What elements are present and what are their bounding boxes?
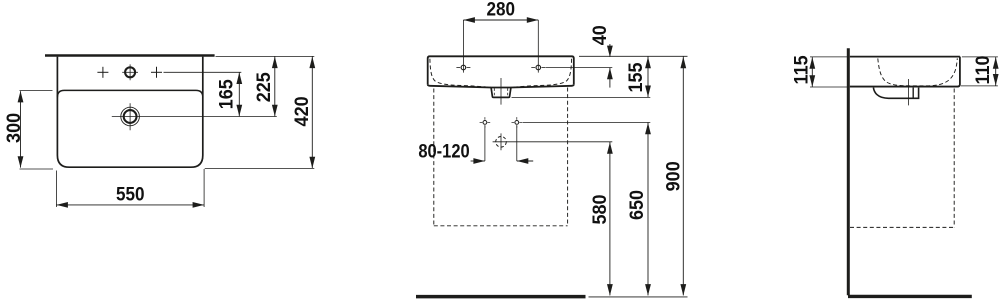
dim 300 extension top [20, 90, 53, 92]
extension fixing holes to 650 dim [523, 121, 651, 123]
dim 300 line [20, 91, 22, 167]
dim 165 arrow down [236, 105, 242, 117]
washbasin top view: outer outline [57, 57, 202, 168]
dim 550 line [56, 204, 204, 206]
front view: bottom edge [428, 84, 574, 87]
front view: furniture hidden dashed right [567, 88, 569, 226]
dim 280 arrow left [463, 17, 475, 23]
front view: drain trap outline [491, 88, 511, 98]
svg-text:420: 420 [290, 96, 312, 126]
dim 40 line lower + arrow up [609, 68, 611, 88]
dim 280 line [463, 19, 538, 21]
front view: trap centreline [500, 78, 502, 105]
top view: centre tap hole centrelines [122, 71, 138, 73]
front view: left tap hole symbol [461, 65, 466, 70]
top view: drain vertical centreline [129, 103, 131, 130]
svg-text:115: 115 [790, 55, 812, 84]
dim 115 extension top [810, 56, 847, 58]
dim 225 arrow up [272, 57, 278, 69]
dim 110 extension top [962, 56, 998, 58]
extension line front edge to 420 dim [205, 167, 315, 169]
dim 280 extension/centreline right [537, 20, 539, 73]
svg-text:300: 300 [3, 113, 25, 143]
front view: drain wall cross circle [496, 137, 507, 148]
side view: basin bottom edge [850, 86, 959, 88]
dim 115 extension bottom [810, 86, 847, 88]
side view: drain hidden dashed vertical [953, 89, 955, 228]
dim 80-120 drop line left [484, 126, 486, 161]
dim 110 arrow down [993, 74, 999, 86]
svg-text:225: 225 [253, 72, 275, 102]
dim 900 arrow up [680, 57, 686, 68]
dim 80-120 arrow right-pointing [473, 158, 485, 164]
side view: floor thick line [848, 295, 972, 298]
dim 165 line [238, 72, 240, 116]
side view: basin top edge [850, 56, 960, 58]
extension line tap row to 165 dim [164, 71, 242, 73]
front view: drain wall cross + extension to 580 dim [493, 141, 613, 143]
extension trap bottom to 155 dim [512, 96, 651, 98]
dim 80-120 arrow left-pointing [517, 158, 529, 164]
dim 580 line [609, 142, 611, 295]
dim 110 extension bottom [961, 85, 998, 87]
dim 155 arrow down [645, 86, 651, 98]
floor extension line to 900 dim [589, 296, 688, 298]
top view: centre tap hole circle [125, 67, 135, 77]
svg-text:550: 550 [116, 184, 145, 205]
side view: trap centreline [908, 79, 910, 105]
front view: furniture hidden dashed bottom [434, 225, 568, 227]
washbasin top view: bowl rim line [57, 90, 202, 97]
svg-text:110: 110 [972, 55, 994, 84]
front view: bowl hidden dashed left [430, 59, 491, 88]
dim 550 arrow left [56, 202, 68, 208]
front view: right tap hole symbol [536, 65, 541, 70]
front view: floor thick line [416, 295, 586, 299]
dim 80-120 line + outside arrows [471, 160, 485, 162]
svg-text:40: 40 [588, 25, 610, 45]
dim 650 arrow down [645, 284, 651, 296]
drain horizontal centreline + extension to 225 dim [112, 116, 277, 118]
dim 165 arrow up [236, 73, 242, 85]
dim 650 line [647, 123, 649, 296]
dim 420 arrow up [309, 57, 315, 69]
dim 650 arrow up [645, 123, 651, 135]
dim 900 line [682, 57, 684, 296]
side view: wall line [847, 48, 850, 295]
svg-text:650: 650 [626, 190, 648, 220]
front view: furniture hidden dashed left [433, 89, 435, 226]
dim 300 arrow down [18, 156, 24, 168]
svg-text:155: 155 [624, 62, 646, 92]
dim 225 arrow down [272, 105, 278, 117]
top view: right tap hole cross [151, 71, 162, 73]
side view: bowl hidden dashed [878, 58, 958, 85]
side view: basin right edge [958, 57, 960, 87]
front view: outer outline [428, 56, 574, 84]
extension basin top edge to 900 dim [579, 55, 688, 57]
svg-text:165: 165 [215, 79, 237, 109]
svg-text:900: 900 [662, 161, 684, 191]
top view: left tap hole cross [97, 71, 108, 73]
dim 300 extension bottom [20, 168, 54, 170]
extension tap row to 40 dim [546, 67, 613, 69]
dim 225 line [274, 56, 276, 116]
svg-text:280: 280 [487, 0, 516, 20]
dim 280 extension/centreline left [462, 20, 464, 73]
dim 115 arrow up [809, 57, 815, 69]
dim 300 arrow up [18, 91, 24, 103]
svg-text:580: 580 [589, 194, 611, 224]
dim 280 arrow right [527, 17, 539, 23]
side view: trap inner wall [912, 88, 914, 99]
svg-text:80-120: 80-120 [418, 140, 469, 161]
front view: right fixing hole [515, 121, 519, 125]
top view: drain outer circle [121, 107, 140, 126]
washbasin top view: back wall thick line [45, 54, 215, 57]
front view: bowl hidden dashed right [511, 59, 572, 88]
dim 115 line [811, 57, 813, 87]
top view: drain thick circle [124, 110, 137, 123]
dim 420 line [311, 56, 313, 168]
dim 420 arrow down [309, 157, 315, 169]
dim 580 arrow up [607, 142, 613, 154]
dim 900 arrow down [680, 284, 686, 296]
front view: left fixing hole [483, 121, 487, 125]
dim 580 arrow down [607, 284, 613, 296]
dim 550 extension right [203, 169, 205, 207]
dim 550 arrow right [193, 202, 205, 208]
dim 155 arrow up [645, 57, 651, 68]
extension line top edge to 420 dim [216, 55, 315, 57]
dim 115 arrow down [809, 75, 815, 87]
dim 40 line upper + arrow down [609, 44, 611, 57]
dim 155 line [647, 57, 649, 98]
side view: trap profile [873, 88, 918, 99]
dim 80-120 drop line right [516, 126, 518, 161]
dim 550 extension left [55, 171, 57, 208]
front view: trap hidden dashed walls [493, 88, 495, 96]
dim 110 arrow up [993, 57, 999, 69]
dim 110 line [995, 57, 997, 86]
side view: drain hidden dashed horizontal [850, 226, 954, 228]
